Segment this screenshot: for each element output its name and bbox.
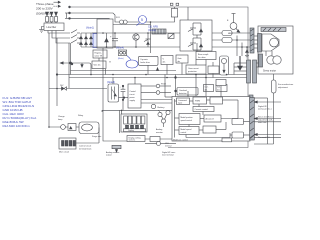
diode 24V on line xyxy=(60,85,67,90)
inrush suppressor box xyxy=(97,19,113,48)
svg-text:control: control xyxy=(181,131,187,134)
connector CN1 hatched xyxy=(250,98,255,141)
box model speed xyxy=(179,127,199,135)
svg-text:(Note1): (Note1) xyxy=(86,27,94,30)
svg-text:Surge abs.: Surge abs. xyxy=(92,136,102,138)
svg-text:drv: drv xyxy=(178,60,181,63)
connector CN2 hatched pair xyxy=(234,60,259,83)
battery terminal circle xyxy=(151,104,165,109)
svg-text:Actual ctrl: Actual ctrl xyxy=(206,118,215,121)
svg-text:For manufacturer: For manufacturer xyxy=(278,83,294,86)
svg-text:R2A M20 120 6Ohm: R2A M20 120 6Ohm xyxy=(3,124,31,128)
label three-phase source xyxy=(36,2,54,16)
svg-text:supply: supply xyxy=(130,100,136,102)
wire monitor out xyxy=(145,139,176,146)
svg-text:Relay: Relay xyxy=(78,115,83,117)
box model position control xyxy=(179,114,200,125)
fuse FU (control) xyxy=(116,17,151,53)
svg-text:terminal: terminal xyxy=(165,145,172,148)
svg-text:Analog monitor: Analog monitor xyxy=(106,151,120,154)
svg-text:Servo motor: Servo motor xyxy=(263,70,276,73)
io line group1 xyxy=(254,101,281,103)
box current detection xyxy=(204,85,228,92)
capacitor C2 pair xyxy=(120,85,126,100)
svg-text:protection: protection xyxy=(188,70,197,73)
box mid bottom xyxy=(150,137,160,142)
box ctl 3 xyxy=(210,97,223,104)
svg-text:Volt. det.: Volt. det. xyxy=(94,64,102,67)
wire mid horizontal xyxy=(71,70,177,72)
svg-text:terminal block: terminal block xyxy=(79,147,91,150)
svg-text:sections: sections xyxy=(129,139,136,142)
svg-text:CN1: CN1 xyxy=(165,143,169,145)
box dynamic brake xyxy=(139,56,159,65)
svg-text:(Note2): (Note2) xyxy=(148,29,156,32)
legend main/control circuit xyxy=(54,1,61,7)
control block main box xyxy=(172,97,250,142)
box voltage detection 3 xyxy=(208,66,219,74)
svg-text:power: power xyxy=(130,96,136,99)
svg-text:Line filter: Line filter xyxy=(47,26,57,29)
box voltage detection xyxy=(92,58,106,69)
box control power supply xyxy=(119,84,142,108)
svg-text:Main circuit: Main circuit xyxy=(59,151,70,154)
current transformer CT2 xyxy=(222,38,232,43)
svg-text:speed control: speed control xyxy=(181,119,193,122)
svg-text:ware use: ware use xyxy=(258,121,267,124)
control rails xyxy=(49,33,248,127)
svg-text:Personal PC: Personal PC xyxy=(258,136,270,139)
enclosure outline xyxy=(70,7,249,148)
svg-text:Model pos. control: Model pos. control xyxy=(173,138,188,141)
svg-text:Model speed: Model speed xyxy=(181,129,192,131)
charge lamp circuit xyxy=(49,122,102,143)
transformer T1 xyxy=(108,84,119,102)
svg-text:monitor: monitor xyxy=(156,131,163,134)
blue label in box xyxy=(100,27,106,32)
current transformer CT1 xyxy=(222,31,232,36)
connector CN4 hatched xyxy=(249,95,253,106)
svg-text:Battery: Battery xyxy=(158,106,166,109)
wire DC P to inverter xyxy=(92,32,180,34)
svg-text:circuit: circuit xyxy=(130,93,135,96)
wire control tap L11 xyxy=(65,12,119,22)
wire middle connectors xyxy=(102,43,221,111)
box current amp w/ circle xyxy=(220,56,229,75)
box small right xyxy=(216,80,226,86)
terminal block TE xyxy=(59,138,99,149)
diode + ground near CT xyxy=(245,47,249,58)
fuse F1 xyxy=(46,12,49,23)
svg-text:fier drive: fier drive xyxy=(198,57,207,59)
svg-text:brake drive: brake drive xyxy=(141,61,150,64)
label under right xyxy=(162,151,176,157)
svg-text:Servo test/Servo: Servo test/Servo xyxy=(258,116,274,119)
blue parts list xyxy=(3,96,37,128)
power outputs xyxy=(141,84,171,95)
label io2 xyxy=(258,116,274,125)
encoder cable pill xyxy=(253,74,276,144)
box operation section xyxy=(127,136,145,142)
fuse F2 xyxy=(50,12,53,23)
label io1 xyxy=(258,105,272,111)
wires amp to motor xyxy=(254,36,258,48)
small box row xyxy=(118,50,127,60)
terminal labels xyxy=(59,145,92,154)
wire long bottom xyxy=(102,110,172,112)
analog monitor cluster xyxy=(156,110,170,134)
power out wires low xyxy=(141,100,172,104)
box overload detection xyxy=(175,75,198,100)
wire phase R xyxy=(48,31,70,34)
svg-text:Digital I/F com-: Digital I/F com- xyxy=(162,151,176,154)
connector CNP (hatched) xyxy=(250,28,254,53)
blue bracket bar xyxy=(93,34,98,48)
svg-text:det.: det. xyxy=(163,60,167,63)
charge lamp labels xyxy=(58,115,83,121)
svg-text:adjustment soft-: adjustment soft- xyxy=(258,118,273,121)
noise filter box xyxy=(44,23,64,31)
label under display xyxy=(106,151,120,157)
output lines U V W xyxy=(212,33,250,47)
svg-text:Digital I/F: Digital I/F xyxy=(258,105,268,108)
wire inverter feed xyxy=(187,7,189,20)
box current control xyxy=(193,107,214,112)
connector small xyxy=(112,145,121,152)
note circle 5 (blue) xyxy=(137,16,147,26)
regen brake transistor Q xyxy=(144,33,151,47)
wire control block internals xyxy=(165,99,250,148)
svg-text:Regene-: Regene- xyxy=(95,53,103,55)
svg-text:Base ampli-: Base ampli- xyxy=(198,54,209,56)
svg-text:PWM: PWM xyxy=(195,101,200,103)
box voltage det 2 xyxy=(161,56,173,65)
fuse F3 xyxy=(55,12,58,23)
svg-text:Current control: Current control xyxy=(195,108,209,111)
svg-text:Analog: Analog xyxy=(156,128,162,131)
svg-text:Overcurrent: Overcurrent xyxy=(188,67,199,70)
svg-text:rative TR: rative TR xyxy=(95,54,103,57)
box overcurrent protection xyxy=(186,65,206,74)
svg-text:Three-phase: Three-phase xyxy=(36,2,54,6)
svg-text:Dynamic: Dynamic xyxy=(141,59,148,61)
svg-text:Display: Display xyxy=(128,130,134,132)
svg-text:(Note4): (Note4) xyxy=(116,47,124,50)
svg-text:detection: detection xyxy=(179,92,187,95)
svg-text:5: 5 xyxy=(141,18,143,22)
blue note ellipse xyxy=(126,56,138,68)
svg-text:Gate: Gate xyxy=(178,57,182,60)
blue note NFB label xyxy=(148,26,158,32)
wire phase S xyxy=(52,31,70,39)
regen terminal circled transistor xyxy=(133,34,139,47)
svg-text:MBR: MBR xyxy=(228,33,233,35)
box regenerative TR xyxy=(93,50,107,58)
tap arrows row xyxy=(60,43,91,75)
diode bus xyxy=(105,33,109,47)
servo motor enclosure xyxy=(258,26,293,74)
box base amplifier xyxy=(196,52,216,60)
svg-text:(servo-on etc.): (servo-on etc.) xyxy=(258,108,272,111)
inverter block U1 xyxy=(180,20,212,51)
wire left drop xyxy=(103,111,127,141)
svg-text:Model position: Model position xyxy=(181,116,193,119)
svg-text:mon terminal: mon terminal xyxy=(162,154,174,157)
svg-text:P15R: P15R xyxy=(161,84,167,86)
svg-text:Control circuit: Control circuit xyxy=(79,145,92,148)
svg-text:output: output xyxy=(106,154,112,157)
svg-text:det.: det. xyxy=(217,88,220,91)
svg-text:200 to 230V: 200 to 230V xyxy=(36,7,54,11)
svg-text:input: input xyxy=(178,102,183,105)
svg-text:Control: Control xyxy=(130,90,137,93)
wire phase T xyxy=(56,31,70,44)
svg-text:(Note): (Note) xyxy=(118,57,124,60)
ground xyxy=(39,27,44,33)
motor connector bar xyxy=(258,34,262,53)
encoder xyxy=(259,51,282,67)
box D/A 2 xyxy=(232,132,244,138)
wire DC N to inverter xyxy=(92,46,180,48)
box ctl pos command xyxy=(177,98,190,105)
note manufacturer text xyxy=(278,83,294,89)
aux contact box xyxy=(168,34,174,39)
capacitor C (main) xyxy=(110,33,118,47)
regenerative resistor R xyxy=(151,3,179,22)
display unit box xyxy=(120,110,148,133)
svg-text:adjustment: adjustment xyxy=(278,86,288,89)
svg-text:Charge: Charge xyxy=(58,116,65,118)
contactor MC contacts xyxy=(71,30,80,43)
box actual control xyxy=(204,115,221,122)
wires CT down xyxy=(237,36,242,71)
rectifier bridge diodes xyxy=(80,33,121,47)
electromagnetic brake symbol xyxy=(227,14,240,36)
box gate drive xyxy=(176,55,188,63)
relay unit (striped) xyxy=(152,29,166,34)
box ctl 8 xyxy=(203,126,216,133)
io line group2 xyxy=(254,117,281,121)
io line group3 xyxy=(254,133,281,137)
svg-text:Curr.: Curr. xyxy=(205,87,209,89)
svg-text:Volt.: Volt. xyxy=(217,86,221,89)
svg-text:(Note3): (Note3) xyxy=(107,81,115,84)
box ctl PWM xyxy=(193,97,207,104)
motor M body xyxy=(262,34,279,51)
arrow up on wire xyxy=(156,68,158,71)
box D/A 1 xyxy=(232,119,244,125)
wire control tap L21 xyxy=(65,18,151,25)
motor label bar (hatched) xyxy=(261,28,286,32)
svg-text:Overload: Overload xyxy=(179,89,187,92)
blue note label near bridge xyxy=(86,22,103,30)
